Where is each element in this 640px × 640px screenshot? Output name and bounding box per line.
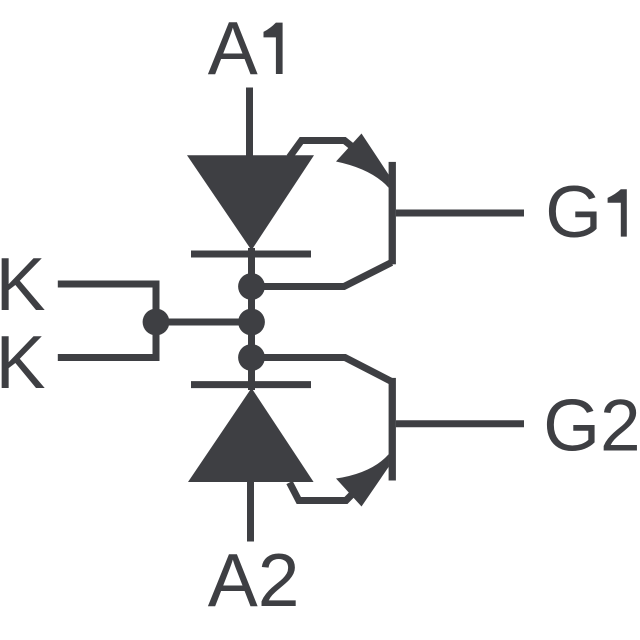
wire A1 lead [246,88,253,160]
wire K upper lead [58,284,156,322]
wire SCR1 gate feedback shaft [290,141,381,170]
wire G2 [396,420,524,427]
svg-text:K: K [0,242,46,326]
SCR1 cathode bar [191,251,311,258]
svg-text:A: A [208,6,258,90]
wire SCR1 cathode to node K1 [252,263,392,287]
wire SCR2 gate feedback shaft [290,468,379,501]
wire SCR2 anode-side to gate bar [252,358,392,382]
node SCR2 junction dot [238,344,265,371]
node K junction dot [143,309,170,336]
wire G1 [396,210,524,217]
SCR2 gate bar [389,378,396,481]
SCR1 gate bar [389,162,396,264]
SCR1 anode triangle [187,155,314,250]
SCR2 gate arrowhead [336,454,389,507]
SCR2 anode triangle [188,388,314,482]
wire center vertical [248,248,255,390]
wire K lower lead [58,322,156,358]
wire K junction to center node [156,319,252,326]
node K center junction dot [238,309,265,336]
svg-text:G2: G2 [543,386,640,467]
svg-text:G: G [545,172,602,253]
wire A2 lead [247,481,254,542]
node SCR1 cathode junction dot [238,273,265,300]
svg-text:A2: A2 [208,538,300,622]
svg-text:K: K [0,320,46,404]
SCR2 cathode bar [191,381,311,388]
SCR1 gate arrowhead [336,134,389,189]
